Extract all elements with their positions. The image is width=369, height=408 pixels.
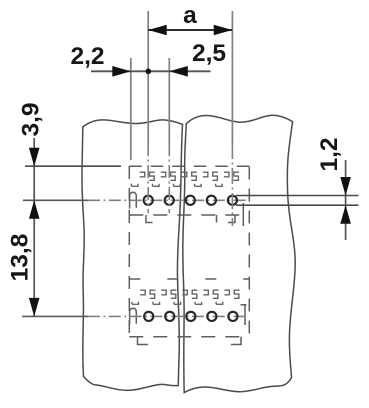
svg-text:1,2: 1,2: [316, 137, 343, 171]
arrow down to row2 centerline: [29, 298, 40, 317]
arrow down to 3,9 top line: [29, 148, 40, 167]
dimension 2,2 / 2,5: shared line, arrows, reference dot: [91, 70, 211, 72]
right PCB panel: [183, 115, 295, 392]
left PCB panel: [82, 120, 183, 391]
clamp slot glyphs row1: [131, 172, 154, 186]
1,2 vertical dimension line: [345, 160, 347, 240]
row1 holes: [144, 196, 153, 205]
extension line 2,2 left vertical: [130, 58, 132, 160]
block row2 bottom dashed edge with jogs: [129, 336, 249, 338]
terminal block dashed outline: left edge: [128, 166, 130, 337]
3,9 top extension line: [25, 165, 121, 167]
extension line hole5 vertical ('a' right): [231, 11, 233, 143]
terminal block dashed outline: top edge row1: [129, 165, 250, 167]
dimension 3,9 / 13,8: vertical line at left: [33, 138, 35, 316]
row1 centerline (dash-dot): [23, 199, 88, 201]
extension line hole2 vertical: [168, 58, 170, 143]
row2 centerline (dash-dot): [22, 315, 88, 317]
arrow up to row1 centerline: [29, 200, 40, 219]
arrow up to bottom tangent: [340, 205, 351, 224]
block row1 bottom dashed edge with jogs: [129, 214, 249, 216]
block edge arch bumps at hole rows: [130, 192, 137, 208]
extension line hole1 vertical: [147, 11, 149, 143]
terminal block dashed outline: right edge: [248, 167, 250, 338]
svg-text:2,5: 2,5: [192, 40, 226, 67]
svg-text:a: a: [183, 2, 197, 29]
clamp slot glyphs row2: [132, 290, 155, 304]
right edge marks near holes: [242, 203, 244, 226]
svg-text:2,2: 2,2: [70, 43, 104, 70]
row2 holes: [144, 312, 153, 321]
block row2 top dashed edge: [129, 278, 249, 280]
dimension a: line and arrows: [148, 29, 232, 31]
svg-text:13,8: 13,8: [7, 234, 34, 282]
svg-text:3,9: 3,9: [18, 102, 45, 136]
dimension 1,2: tangent lines to hole5: [236, 195, 359, 197]
arrow down to top tangent: [340, 177, 351, 196]
